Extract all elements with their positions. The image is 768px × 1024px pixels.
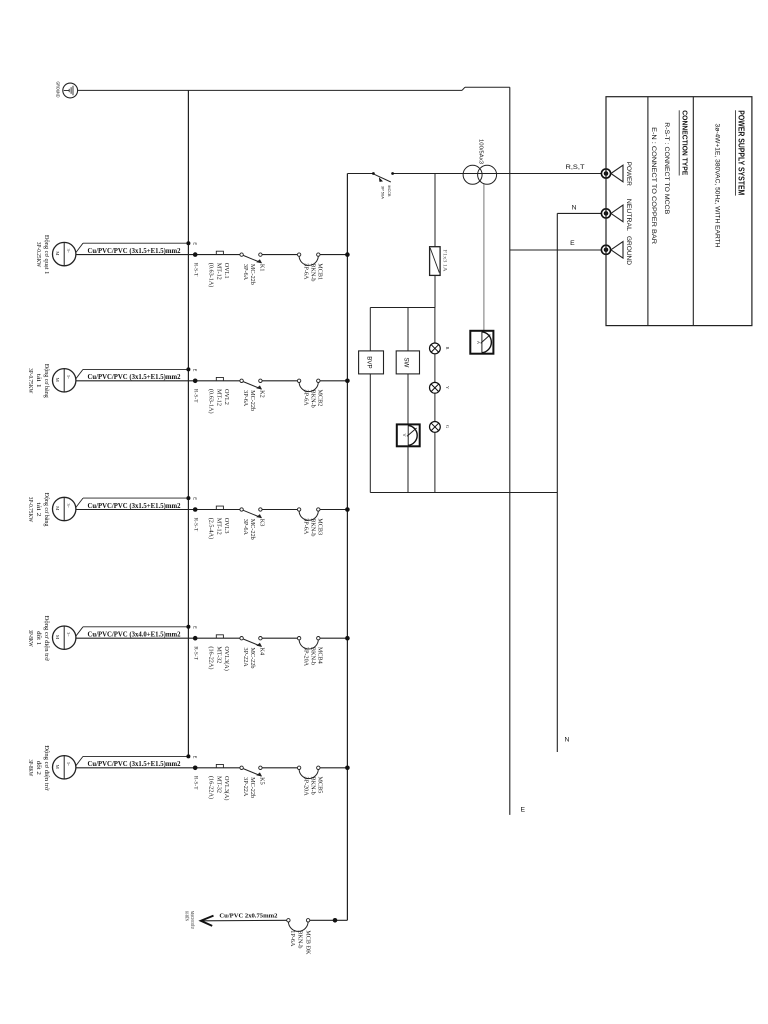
svg-text:E: E <box>192 369 197 372</box>
motor M2 <box>52 369 75 392</box>
svg-text:MC-22b: MC-22b <box>249 264 256 285</box>
control cable label <box>219 913 278 920</box>
title block frame <box>606 97 752 326</box>
svg-text:R-S-T: R-S-T <box>192 646 197 660</box>
overload relay OVL3(A) <box>207 635 230 671</box>
ammeter A <box>470 184 493 354</box>
junction on earth bus (branch 5) <box>186 754 190 758</box>
svg-text:MC-22b: MC-22b <box>249 648 256 669</box>
svg-text:BKN-b: BKN-b <box>309 777 316 795</box>
junction dot after earth bus (branch 2) <box>193 379 198 384</box>
svg-text:E: E <box>192 756 197 759</box>
SW box <box>396 308 419 425</box>
svg-text:E: E <box>570 240 575 247</box>
NEUTRAL label <box>625 199 632 231</box>
BVP box <box>359 308 384 493</box>
branch 3 earth flag wire <box>76 498 189 507</box>
svg-text:3P-6A: 3P-6A <box>242 519 249 536</box>
svg-text:K5: K5 <box>258 777 265 785</box>
svg-text:Cu/PVC/PVC (3x1.5+E1.5)mm2: Cu/PVC/PVC (3x1.5+E1.5)mm2 <box>88 248 182 255</box>
svg-text:R-S-T: R-S-T <box>192 776 197 790</box>
svg-text:(16-22A): (16-22A) <box>207 776 214 799</box>
note R-S-T connect to MCCB <box>663 122 670 215</box>
svg-text:E: E <box>192 626 197 629</box>
motor M1 label <box>35 235 49 275</box>
motor M1 <box>52 242 75 265</box>
overload relay OVL3(A) <box>207 764 230 800</box>
svg-text:E: E <box>192 497 197 500</box>
svg-text:BKN-b: BKN-b <box>309 647 316 665</box>
cable label branch 5 <box>88 761 182 768</box>
overload relay OVL3 <box>207 506 230 539</box>
svg-text:3P-22A: 3P-22A <box>242 777 249 797</box>
svg-text:K1: K1 <box>258 264 265 272</box>
branch 3 feeder wire <box>76 509 348 511</box>
branch 5 earth flag wire <box>76 756 189 765</box>
junction on earth bus (branch 4) <box>186 625 190 629</box>
svg-text:Cu/PVC/PVC (3x4.0+E1.5)mm2: Cu/PVC/PVC (3x4.0+E1.5)mm2 <box>88 632 182 639</box>
svg-text:tải 2: tải 2 <box>35 502 41 516</box>
svg-text:Cu/PVC/PVC (3x1.5+E1.5)mm2: Cu/PVC/PVC (3x1.5+E1.5)mm2 <box>88 761 182 768</box>
svg-text:(2.5-4A): (2.5-4A) <box>207 518 214 539</box>
N riser wire <box>556 213 558 752</box>
contactor K5 <box>240 766 265 798</box>
motor M2 label <box>27 364 49 398</box>
node E mark (branch 5) <box>192 756 197 759</box>
fuse F1x3 1A <box>430 174 448 308</box>
svg-text:(16-22A): (16-22A) <box>207 646 214 669</box>
svg-text:NEUTRAL: NEUTRAL <box>625 199 632 231</box>
svg-text:3P 50A: 3P 50A <box>381 186 386 199</box>
subtitle 3ph-4W+1E <box>714 124 721 248</box>
svg-text:3P-20A: 3P-20A <box>302 647 309 667</box>
svg-text:(0.63-1A): (0.63-1A) <box>207 389 214 414</box>
svg-text:M: M <box>55 765 60 769</box>
svg-text:E-N : CONNECT TO COPPER BAR: E-N : CONNECT TO COPPER BAR <box>650 127 657 244</box>
svg-text:MT-12: MT-12 <box>215 518 222 535</box>
svg-text:E: E <box>192 242 197 245</box>
title POWER SUPPLY SYSTEM <box>735 110 745 195</box>
motor M5 label <box>27 745 49 791</box>
node E mark (branch 2) <box>192 369 197 372</box>
svg-text:M: M <box>55 635 60 639</box>
POWER label <box>625 162 632 186</box>
N node label <box>572 205 577 212</box>
junction dot after earth bus (branch 5) <box>193 766 198 771</box>
svg-text:KHIỂN: KHIỂN <box>185 911 190 921</box>
svg-text:MCCB: MCCB <box>387 186 392 197</box>
motor M3 label <box>27 493 49 527</box>
junction on phase bus (branch 5) <box>345 766 350 771</box>
N end label <box>565 737 570 744</box>
svg-text:MẠCH ĐIỀU: MẠCH ĐIỀU <box>190 911 195 929</box>
svg-text:Cu/PVC 2x0.75mm2: Cu/PVC 2x0.75mm2 <box>219 913 278 920</box>
svg-text:3P-6A: 3P-6A <box>302 518 309 535</box>
wire ground to earth riser <box>78 87 510 90</box>
svg-text:(0.63-1A): (0.63-1A) <box>207 263 214 288</box>
ground electrode symbol <box>63 83 78 98</box>
overload relay OVL2 <box>207 377 230 413</box>
svg-text:R-S-T : CONNECT TO MCCB: R-S-T : CONNECT TO MCCB <box>663 122 670 215</box>
svg-text:GROUND: GROUND <box>55 82 60 99</box>
svg-text:MC-22b: MC-22b <box>249 390 256 411</box>
node E mark (branch 4) <box>192 626 197 629</box>
MACH DIEU KHIEN label <box>185 911 195 929</box>
svg-text:R-S-T: R-S-T <box>192 389 197 403</box>
node E mark (branch 3) <box>192 497 197 500</box>
R-S-T tap label (branch 1) <box>192 263 197 277</box>
svg-text:Cu/PVC/PVC (3x1.5+E1.5)mm2: Cu/PVC/PVC (3x1.5+E1.5)mm2 <box>88 374 182 381</box>
cable label branch 4 <box>88 632 182 639</box>
junction on earth bus (branch 3) <box>186 496 190 500</box>
GROUND label <box>55 82 60 99</box>
svg-text:100/5Ax3: 100/5Ax3 <box>478 139 484 164</box>
svg-text:Động cơ điện trở: Động cơ điện trở <box>43 616 49 662</box>
svg-text:M: M <box>55 506 60 510</box>
junction dot after earth bus (branch 4) <box>193 636 198 641</box>
svg-text:MT-32: MT-32 <box>215 776 222 793</box>
breaker MCB4 <box>297 637 323 667</box>
junction on phase bus (branch 2) <box>345 379 350 384</box>
svg-text:OVL1: OVL1 <box>223 263 230 279</box>
svg-text:A: A <box>476 341 481 344</box>
svg-text:N: N <box>565 737 570 744</box>
svg-text:MC-22b: MC-22b <box>249 519 256 540</box>
indicator lamp Y <box>430 382 451 393</box>
svg-text:MT-32: MT-32 <box>215 646 222 663</box>
svg-text:K4: K4 <box>258 648 265 656</box>
breaker MCB2 <box>297 379 323 408</box>
voltmeter V <box>397 424 420 492</box>
indicator lamp R <box>430 343 451 354</box>
main feed wire <box>347 173 601 175</box>
svg-text:K3: K3 <box>258 519 265 527</box>
svg-text:M: M <box>55 378 60 382</box>
E end label <box>521 807 526 814</box>
current transformer CT 100/5Ax3 <box>463 139 497 184</box>
lamp chain wire <box>434 308 436 493</box>
phase bus (vertical) <box>346 174 348 921</box>
terminal GROUND <box>601 242 623 259</box>
MCCB 3P 50A breaker <box>372 172 394 199</box>
control feeder wire <box>310 919 348 921</box>
wire E terminal <box>510 249 601 251</box>
svg-text:đốt 2: đốt 2 <box>35 761 42 775</box>
node E mark (branch 1) <box>192 242 197 245</box>
svg-text:MCB4: MCB4 <box>316 647 323 664</box>
svg-text:SW: SW <box>403 357 410 367</box>
svg-text:MC-22b: MC-22b <box>249 777 256 798</box>
branch 4 earth flag wire <box>76 627 189 636</box>
R-S-T tap label (branch 2) <box>192 389 197 403</box>
wire to control circuit arrow <box>203 919 287 922</box>
svg-text:3P-6A: 3P-6A <box>302 390 309 407</box>
branch 1 earth flag wire <box>76 243 189 252</box>
svg-text:OVL3(A): OVL3(A) <box>223 646 230 670</box>
svg-text:V: V <box>402 434 407 437</box>
junction dot after earth bus (branch 1) <box>193 252 198 257</box>
svg-text:3P-0.75KW: 3P-0.75KW <box>27 497 33 523</box>
svg-text:R-S-T: R-S-T <box>192 263 197 277</box>
GROUND label <box>625 236 632 265</box>
breaker MCB5 <box>297 766 323 796</box>
svg-text:Cu/PVC/PVC (3x1.5+E1.5)mm2: Cu/PVC/PVC (3x1.5+E1.5)mm2 <box>88 503 182 510</box>
R-S-T tap label (branch 5) <box>192 776 197 790</box>
svg-text:N: N <box>572 205 577 212</box>
control top rail <box>370 307 435 309</box>
svg-text:3P-0.75KW: 3P-0.75KW <box>27 368 33 394</box>
svg-text:3P-6A: 3P-6A <box>242 390 249 407</box>
svg-text:3P-6A: 3P-6A <box>302 263 309 280</box>
svg-text:3P-8KW: 3P-8KW <box>27 759 33 776</box>
arrow to control circuit <box>201 916 214 926</box>
CONNECTION TYPE heading <box>679 110 689 175</box>
svg-text:MCB ĐK: MCB ĐK <box>304 930 311 955</box>
overload relay OVL1 <box>207 251 230 287</box>
junction dot control feeder <box>333 918 338 923</box>
breaker MCB DK <box>287 919 312 955</box>
branch 4 feeder wire <box>76 637 348 639</box>
svg-text:3P-6A: 3P-6A <box>242 264 249 281</box>
svg-text:R: R <box>445 347 450 350</box>
svg-text:đốt 1: đốt 1 <box>35 631 42 645</box>
E riser wire <box>509 87 511 815</box>
contactor K4 <box>240 637 265 669</box>
svg-text:Động cơ điện trở: Động cơ điện trở <box>43 745 49 791</box>
note E-N connect to copper bar <box>650 127 657 244</box>
branch 1 feeder wire <box>76 254 348 256</box>
motor M4 label <box>27 616 49 662</box>
svg-text:CONNECTION TYPE: CONNECTION TYPE <box>680 110 689 175</box>
svg-text:BKN-b: BKN-b <box>309 263 316 281</box>
svg-text:M: M <box>55 251 60 255</box>
svg-text:3P-22A: 3P-22A <box>242 648 249 668</box>
svg-text:Động cơ quạt 1: Động cơ quạt 1 <box>43 235 49 275</box>
svg-text:MT-12: MT-12 <box>215 389 222 406</box>
motor M5 <box>52 756 75 779</box>
terminal NEUTRAL <box>601 205 623 222</box>
svg-text:3P-20A: 3P-20A <box>302 777 309 797</box>
svg-text:K2: K2 <box>258 390 265 398</box>
wire N terminal <box>557 212 601 214</box>
svg-text:BVP: BVP <box>365 356 372 368</box>
cable label branch 2 <box>88 374 182 381</box>
contactor K1 <box>240 253 265 285</box>
control bottom rail <box>370 492 557 494</box>
svg-text:3P-0.25KW: 3P-0.25KW <box>35 242 41 268</box>
svg-text:MCB3: MCB3 <box>316 518 323 535</box>
motor M4 <box>52 626 75 649</box>
svg-text:Động cơ băng: Động cơ băng <box>43 364 49 398</box>
svg-text:1P-6A: 1P-6A <box>289 930 296 947</box>
svg-text:E: E <box>521 807 526 814</box>
R-S-T tap label (branch 4) <box>192 646 197 660</box>
svg-text:BKN-b: BKN-b <box>297 930 304 948</box>
motor M3 <box>52 497 75 520</box>
svg-text:BKN-b: BKN-b <box>309 390 316 408</box>
svg-text:MCB1: MCB1 <box>316 263 323 280</box>
svg-text:MT-12: MT-12 <box>215 263 222 280</box>
svg-text:MCB2: MCB2 <box>316 390 323 407</box>
svg-text:OVL2: OVL2 <box>223 389 230 405</box>
junction on phase bus (branch 1) <box>345 252 350 257</box>
indicator lamp G <box>430 422 451 433</box>
R,S,T node label <box>566 164 585 171</box>
svg-text:BKN-b: BKN-b <box>309 518 316 536</box>
E node label <box>570 240 575 247</box>
svg-text:MCB5: MCB5 <box>316 777 323 794</box>
terminal POWER <box>601 165 623 182</box>
junction dot after earth bus (branch 3) <box>193 507 198 512</box>
R-S-T tap label (branch 3) <box>192 518 197 532</box>
junction on phase bus (branch 3) <box>345 507 350 512</box>
junction on phase bus (branch 4) <box>345 636 350 641</box>
svg-text:GROUND: GROUND <box>625 236 632 265</box>
branch 2 feeder wire <box>76 380 348 382</box>
svg-text:POWER: POWER <box>625 162 632 186</box>
earth bus (vertical) <box>187 90 189 756</box>
svg-text:OVL3(A): OVL3(A) <box>223 776 230 800</box>
svg-text:F1x3 1A: F1x3 1A <box>442 250 448 272</box>
cable label branch 3 <box>88 503 182 510</box>
branch 2 earth flag wire <box>76 369 189 378</box>
svg-text:tải 1: tải 1 <box>35 374 41 388</box>
contactor K3 <box>240 508 265 540</box>
svg-text:Động cơ băng: Động cơ băng <box>43 493 49 527</box>
svg-text:R,S,T: R,S,T <box>566 164 585 171</box>
svg-text:3ø-4W+1E, 380VAC, 50Hz, WITH E: 3ø-4W+1E, 380VAC, 50Hz, WITH EARTH <box>714 124 721 248</box>
branch 5 feeder wire <box>76 767 348 769</box>
svg-text:POWER SUPPLY SYSTEM: POWER SUPPLY SYSTEM <box>736 110 745 195</box>
breaker MCB1 <box>297 253 323 282</box>
svg-text:R-S-T: R-S-T <box>192 518 197 532</box>
svg-text:3P-8KW: 3P-8KW <box>27 630 33 647</box>
contactor K2 <box>240 379 265 411</box>
breaker MCB3 <box>297 508 323 537</box>
junction on earth bus (branch 2) <box>186 367 190 371</box>
cable label branch 1 <box>88 248 182 255</box>
junction on earth bus (branch 1) <box>186 241 190 245</box>
svg-text:OVL3: OVL3 <box>223 518 230 534</box>
